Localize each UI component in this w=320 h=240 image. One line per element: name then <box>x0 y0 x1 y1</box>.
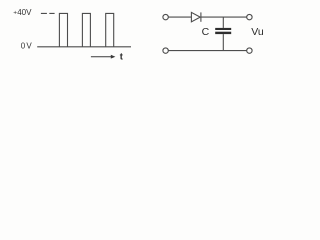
wire time axis arrow <box>91 55 116 59</box>
node input terminal bottom <box>163 48 168 53</box>
wire dashed +40V level line <box>41 12 55 14</box>
node 0V label <box>21 42 33 51</box>
wire pulse waveform baseline <box>37 46 131 48</box>
node input terminal top <box>163 14 168 19</box>
wire pulse 1 <box>59 13 67 46</box>
wire pulse 3 <box>106 13 114 46</box>
capacitor C top plate <box>215 28 231 30</box>
svg-text:C: C <box>202 26 210 38</box>
svg-text:V: V <box>26 8 32 17</box>
svg-text:t: t <box>120 52 124 63</box>
wire capacitor top lead <box>222 17 224 28</box>
diode D1 <box>191 12 201 21</box>
node output terminal bottom <box>247 48 252 53</box>
wire cathode to output <box>201 16 247 18</box>
wire bottom rail <box>168 50 246 52</box>
svg-text:Vu: Vu <box>251 26 264 38</box>
wire capacitor bottom lead <box>222 34 224 51</box>
svg-text:0: 0 <box>21 42 26 51</box>
svg-text:V: V <box>26 42 32 51</box>
node +40V label <box>13 8 32 17</box>
wire anode <box>168 16 191 18</box>
wire pulse 2 <box>82 13 90 46</box>
capacitor C bottom plate <box>215 32 231 34</box>
node output terminal top <box>247 14 252 19</box>
